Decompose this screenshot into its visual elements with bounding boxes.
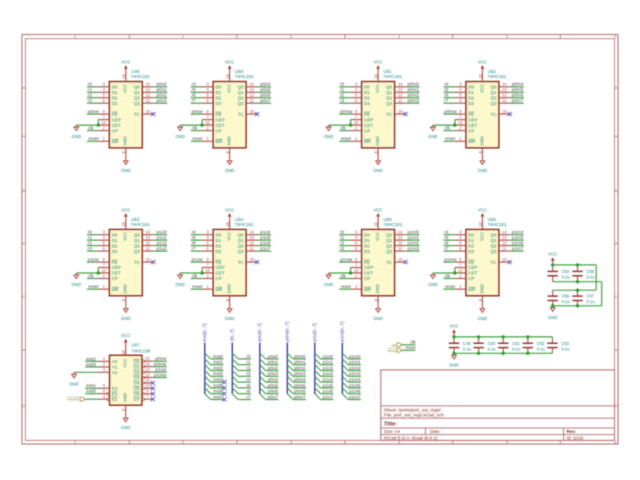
svg-text:r0: r0	[88, 82, 93, 87]
svg-text:VCC: VCC	[449, 324, 458, 329]
svg-text:74HC161: 74HC161	[383, 74, 403, 79]
svg-text:GND: GND	[373, 168, 383, 173]
svg-text:inst1: inst1	[213, 360, 223, 365]
svg-text:clk: clk	[340, 273, 346, 278]
svg-text:D: D	[615, 404, 618, 408]
svg-text:p0o1: p0o1	[156, 87, 167, 92]
pin MR (1) of U54 with wire+label reset	[191, 284, 213, 289]
capacitor C52 0.1u	[523, 337, 545, 353]
svg-text:GND: GND	[227, 284, 232, 294]
svg-text:p1m5: p1m5	[349, 383, 361, 388]
svg-text:r5: r5	[246, 383, 251, 388]
bus entry + wire r1	[232, 359, 251, 365]
svg-text:p0m2: p0m2	[294, 365, 306, 370]
reference U53 value 74HC161	[131, 217, 151, 227]
svg-text:16: 16	[121, 73, 126, 78]
svg-text:Q0: Q0	[490, 85, 497, 90]
svg-text:p0o2: p0o2	[156, 93, 167, 98]
capacitor C56 0.1u	[548, 290, 570, 306]
svg-text:Q3: Q3	[238, 101, 245, 106]
junction at CET of U51	[349, 123, 352, 126]
svg-text:Q2: Q2	[386, 243, 393, 248]
svg-text:D0: D0	[216, 232, 222, 237]
pin D2 (5) of U50 with wire+label r6	[191, 93, 213, 98]
svg-text:GND: GND	[479, 136, 484, 146]
svg-text:14: 14	[249, 230, 254, 235]
pin Q0 (14) of U51 with wire+label p0m0	[395, 82, 420, 87]
svg-text:MR: MR	[216, 139, 224, 144]
svg-text:p0mw: p0mw	[154, 362, 167, 367]
svg-text:D3: D3	[364, 101, 370, 106]
svg-text:16: 16	[478, 73, 483, 78]
capacitor C50 0.1u	[473, 337, 495, 353]
bus entry + wire p1o6	[315, 388, 334, 394]
pin TC (15) of U53 no-connect	[142, 257, 155, 264]
svg-text:r7: r7	[246, 394, 251, 399]
svg-text:Q3: Q3	[386, 101, 393, 106]
svg-text:A2: A2	[112, 370, 118, 375]
bus entry + wire inst4	[205, 376, 227, 384]
svg-text:p1m6: p1m6	[512, 241, 524, 246]
svg-text:p0o7: p0o7	[260, 98, 271, 103]
svg-text:TC: TC	[134, 260, 141, 265]
pin CP (2) of U54 with wire+label clk	[191, 273, 213, 278]
svg-text:74HC161: 74HC161	[131, 222, 151, 227]
svg-text:74HC161: 74HC161	[235, 222, 255, 227]
svg-text:Q2: Q2	[238, 243, 245, 248]
svg-text:VCC: VCC	[123, 84, 128, 93]
svg-text:Title:: Title:	[384, 421, 397, 427]
junctions on C54-C57 rails	[551, 263, 579, 307]
svg-text:Sheet: /ports/port_out_regs/: Sheet: /ports/port_out_regs/	[384, 407, 442, 412]
svg-text:O7: O7	[133, 397, 140, 402]
svg-text:CEP: CEP	[216, 265, 225, 270]
pin Q0 (14) of U56 with wire+label p1m4	[499, 230, 524, 235]
svg-text:p1o2: p1o2	[156, 241, 167, 246]
svg-text:74HC161: 74HC161	[383, 222, 403, 227]
svg-text:12: 12	[502, 240, 507, 245]
ic U51 74HC161 body	[362, 82, 395, 148]
svg-text:10: 10	[458, 120, 463, 125]
reference U56 value 74HC161	[487, 217, 507, 227]
pin Q0 (14) of U55 with wire+label p1m0	[395, 230, 420, 235]
svg-text:p1m1: p1m1	[349, 360, 361, 365]
svg-text:r4: r4	[246, 377, 251, 382]
svg-text:VCC: VCC	[375, 232, 380, 241]
svg-text:D0: D0	[364, 85, 370, 90]
bus entry + wire p1m7	[342, 394, 361, 400]
svg-text:0.1u: 0.1u	[587, 275, 595, 280]
svg-text:r4: r4	[444, 230, 449, 235]
svg-text:TC: TC	[238, 112, 245, 117]
ic U54 74HC161 body	[213, 229, 246, 295]
pin A1 (2) of U57	[85, 362, 109, 367]
svg-text:reset: reset	[341, 284, 352, 289]
svg-text:p0o3: p0o3	[156, 98, 167, 103]
wire CEP-CET tie of U49	[76, 120, 98, 126]
svg-text:D1: D1	[468, 238, 474, 243]
svg-text:C51: C51	[512, 341, 520, 346]
power GND pin 8 of U53	[121, 296, 131, 321]
svg-text:p0o0: p0o0	[268, 354, 279, 359]
pin D2 (5) of U53 with wire+label r2	[87, 240, 109, 245]
bus p1m[0..7]	[339, 322, 344, 394]
power GND pin 8 of U57	[121, 405, 131, 430]
svg-text:clk: clk	[410, 340, 416, 345]
svg-text:VCC: VCC	[478, 60, 487, 65]
pin D3 (6) of U55 with wire+label r3	[339, 246, 361, 251]
svg-text:11: 11	[502, 98, 507, 103]
pin Q0 (14) of U54 with wire+label p1o4	[246, 230, 271, 235]
junction at CET of U50	[200, 123, 203, 126]
wire CEP-CET tie of U50	[180, 120, 202, 126]
bus entry + wire p1o1	[315, 359, 334, 365]
wire CEP-CET tie of U52	[433, 120, 455, 126]
svg-text:inst0: inst0	[86, 389, 96, 394]
ground symbol left of U52	[428, 125, 438, 139]
svg-text:p0o1: p0o1	[268, 360, 279, 365]
svg-text:VCC: VCC	[374, 60, 383, 65]
svg-text:p1m7: p1m7	[349, 394, 361, 399]
svg-text:Rev:: Rev:	[567, 429, 577, 434]
svg-text:11: 11	[146, 98, 151, 103]
pin CP (2) of U56 with wire+label clk	[444, 273, 466, 278]
svg-text:PE: PE	[468, 112, 474, 117]
svg-text:14: 14	[146, 82, 151, 87]
power GND pin 8 of U52	[478, 148, 488, 173]
svg-text:p0m[0..7]: p0m[0..7]	[284, 322, 289, 342]
svg-text:Q1: Q1	[134, 238, 141, 243]
pin D2 (5) of U52 with wire+label r6	[444, 93, 466, 98]
svg-text:D3: D3	[468, 249, 474, 254]
reference U50 value 74HC161	[235, 69, 255, 79]
pin E1 (4) of U57	[99, 394, 110, 400]
svg-text:p0m3: p0m3	[408, 98, 420, 103]
svg-text:r2: r2	[340, 93, 345, 98]
svg-text:CET: CET	[468, 123, 477, 128]
wire clk with label	[402, 340, 417, 345]
svg-text:p1ow: p1ow	[155, 367, 167, 372]
bus entry + wire inst3	[205, 371, 224, 377]
bus entry + wire r6	[232, 388, 251, 394]
svg-text:r4: r4	[192, 82, 197, 87]
bus entry + wire p0o6	[260, 388, 279, 394]
svg-text:GND: GND	[478, 316, 488, 321]
svg-text:r5: r5	[444, 235, 449, 240]
pin CEP (7) of U55	[351, 262, 362, 267]
power VCC pin 16 of U54	[225, 207, 234, 229]
svg-text:1: 1	[74, 35, 76, 39]
pin CP (2) of U55 with wire+label clk	[339, 273, 361, 278]
svg-text:13: 13	[146, 235, 151, 240]
pin D1 (4) of U49 with wire+label r1	[87, 87, 109, 92]
svg-text:D2: D2	[216, 243, 222, 248]
svg-text:p1o0: p1o0	[323, 354, 334, 359]
svg-text:12: 12	[249, 93, 254, 98]
pin Q2 (12) of U52 with wire+label p0m6	[499, 93, 524, 98]
bus entry + wire p1m5	[342, 382, 361, 388]
svg-text:U57: U57	[131, 343, 140, 348]
svg-text:GND: GND	[69, 381, 79, 386]
svg-text:p1m0: p1m0	[349, 354, 361, 359]
svg-text:CP: CP	[216, 128, 222, 133]
svg-text:r6: r6	[192, 241, 197, 246]
bus p0m[0..7]	[284, 322, 289, 394]
svg-text:r2: r2	[88, 93, 93, 98]
pin D2 (5) of U49 with wire+label r2	[87, 93, 109, 98]
bus entry + wire p0m6	[287, 388, 306, 394]
pin CET (10) of U49	[98, 120, 109, 125]
svg-text:13: 13	[146, 87, 151, 92]
svg-text:GND: GND	[324, 134, 334, 139]
junction at CET of U53	[97, 271, 100, 274]
svg-text:r6: r6	[246, 389, 251, 394]
svg-text:Id: 11/16: Id: 11/16	[567, 436, 584, 441]
svg-text:p1m5: p1m5	[512, 235, 524, 240]
pin Q1 (13) of U56 with wire+label p1m5	[499, 235, 524, 240]
svg-text:VCC: VCC	[374, 207, 383, 212]
svg-text:D0: D0	[468, 232, 474, 237]
svg-text:p0o6: p0o6	[268, 389, 279, 394]
svg-text:CEP: CEP	[112, 265, 121, 270]
pin Q1 (13) of U49 with wire+label p0o1	[142, 87, 167, 92]
svg-text:Q3: Q3	[490, 101, 497, 106]
svg-text:r3: r3	[340, 98, 345, 103]
svg-text:Q0: Q0	[238, 85, 245, 90]
pin E3 (6) of U57	[85, 383, 109, 388]
svg-text:Q1: Q1	[238, 90, 245, 95]
svg-text:clk: clk	[88, 126, 94, 131]
capacitor C49 0.1u	[449, 337, 471, 353]
pin Q2 (12) of U50 with wire+label p0o6	[246, 93, 271, 98]
svg-text:CET: CET	[216, 123, 225, 128]
svg-text:Q0: Q0	[490, 232, 497, 237]
bus entry + wire p1o5	[315, 382, 334, 388]
svg-text:p0o5: p0o5	[260, 87, 271, 92]
svg-text:13: 13	[249, 235, 254, 240]
pin Q2 (12) of U54 with wire+label p1o6	[246, 240, 271, 245]
svg-text:p1ow: p1ow	[192, 257, 204, 262]
svg-text:clk: clk	[88, 273, 94, 278]
svg-text:D1: D1	[112, 238, 118, 243]
pin Q0 (14) of U50 with wire+label p0o4	[246, 82, 271, 87]
svg-text:r1: r1	[246, 360, 251, 365]
pin E2 (5) of U57	[85, 389, 109, 395]
svg-text:reset: reset	[341, 136, 352, 141]
svg-text:CP: CP	[112, 128, 118, 133]
svg-text:6: 6	[614, 35, 616, 39]
power GND pin 8 of U49	[121, 148, 131, 173]
svg-text:12: 12	[249, 240, 254, 245]
svg-text:D0: D0	[468, 85, 474, 90]
svg-text:Q2: Q2	[238, 95, 245, 100]
svg-text:GND: GND	[175, 282, 185, 287]
hierarchical label miscIO on pin E1	[67, 397, 99, 402]
svg-text:0.1u: 0.1u	[562, 275, 570, 280]
power VCC above C54	[548, 252, 557, 265]
svg-text:4: 4	[398, 441, 400, 445]
svg-text:p0ow: p0ow	[155, 356, 167, 361]
svg-text:16: 16	[478, 221, 483, 226]
svg-text:10: 10	[354, 120, 359, 125]
svg-text:Q1: Q1	[386, 238, 393, 243]
svg-text:GND: GND	[121, 316, 131, 321]
svg-text:VCC: VCC	[478, 207, 487, 212]
svg-text:15: 15	[145, 356, 150, 361]
svg-text:GND: GND	[548, 315, 558, 320]
svg-text:p0o[0..7]: p0o[0..7]	[257, 323, 262, 341]
svg-text:p1o7: p1o7	[323, 394, 334, 399]
svg-text:Q0: Q0	[386, 85, 393, 90]
GND rail C54-C57	[553, 282, 602, 306]
pin O7 (7) of U57	[142, 394, 155, 401]
svg-text:VCC: VCC	[123, 358, 128, 367]
svg-text:reset: reset	[387, 348, 397, 353]
bus entry + wire p1m0	[342, 353, 361, 359]
power GND below C56	[548, 306, 558, 320]
svg-text:14: 14	[146, 230, 151, 235]
svg-text:D3: D3	[364, 249, 370, 254]
pin CET (10) of U54	[202, 268, 213, 273]
svg-text:D2: D2	[468, 243, 474, 248]
bus entry + wire p1m1	[342, 359, 361, 365]
pin A2 (3) of U57	[99, 367, 110, 372]
pin MR (1) of U56 with wire+label reset	[444, 284, 466, 289]
pin CP (2) of U53 with wire+label clk	[87, 273, 109, 278]
bus entry + wire p1o0	[315, 353, 334, 359]
svg-text:14: 14	[502, 230, 507, 235]
svg-text:r7: r7	[192, 98, 197, 103]
pin Q1 (13) of U53 with wire+label p1o1	[142, 235, 167, 240]
bus entry + wire p1m2	[342, 365, 361, 371]
bus entry + wire p0o5	[260, 382, 279, 388]
reference U51 value 74HC161	[383, 69, 403, 79]
junction at CET of U55	[349, 271, 352, 274]
svg-text:r1: r1	[340, 235, 345, 240]
svg-text:GND: GND	[121, 168, 131, 173]
ground symbol left of U50	[175, 125, 185, 139]
bus entry + wire p0o0	[260, 353, 279, 359]
capacitor C53 0.1u	[547, 337, 569, 353]
svg-text:10: 10	[205, 120, 210, 125]
svg-text:10: 10	[354, 268, 359, 273]
svg-text:C53: C53	[561, 341, 569, 346]
svg-text:GND: GND	[375, 284, 380, 294]
svg-text:CET: CET	[112, 271, 121, 276]
svg-text:O1: O1	[133, 364, 140, 369]
svg-text:clk: clk	[445, 126, 451, 131]
svg-text:16: 16	[225, 221, 230, 226]
svg-text:Q3: Q3	[238, 249, 245, 254]
svg-text:14: 14	[398, 230, 403, 235]
svg-text:0.1u: 0.1u	[463, 346, 471, 351]
pin MR (1) of U53 with wire+label reset	[87, 284, 109, 289]
svg-text:r5: r5	[192, 235, 197, 240]
pin CEP (7) of U52	[455, 114, 466, 119]
svg-text:p1o1: p1o1	[156, 235, 167, 240]
svg-text:CP: CP	[468, 276, 474, 281]
pin D2 (5) of U55 with wire+label r2	[339, 240, 361, 245]
svg-text:D0: D0	[112, 232, 118, 237]
pin D1 (4) of U50 with wire+label r5	[191, 87, 213, 92]
svg-text:D2: D2	[364, 243, 370, 248]
svg-text:C57: C57	[587, 294, 595, 299]
pin Q1 (13) of U51 with wire+label p0m1	[395, 87, 420, 92]
svg-text:E1: E1	[112, 397, 118, 402]
pin CET (10) of U51	[351, 120, 362, 125]
pin O5 (10) of U57	[142, 383, 155, 390]
svg-text:O6: O6	[133, 392, 140, 397]
wire CEP-CET tie of U54	[180, 268, 202, 274]
svg-text:VCC: VCC	[227, 232, 232, 241]
svg-text:12: 12	[145, 372, 150, 377]
bus entry + wire inst2	[205, 365, 224, 371]
svg-text:inst1: inst1	[86, 383, 96, 388]
svg-text:r0: r0	[246, 354, 251, 359]
svg-text:PE: PE	[112, 260, 118, 265]
svg-text:1: 1	[74, 441, 76, 445]
svg-text:E3: E3	[112, 386, 118, 391]
pin D2 (5) of U51 with wire+label r2	[339, 93, 361, 98]
svg-text:p0m5: p0m5	[512, 87, 524, 92]
svg-text:0.1u: 0.1u	[488, 346, 496, 351]
pin D3 (6) of U54 with wire+label r7	[191, 246, 213, 251]
svg-text:11: 11	[146, 246, 151, 251]
svg-text:GND: GND	[479, 284, 484, 294]
svg-text:O0: O0	[133, 359, 140, 364]
pin Q3 (11) of U50 with wire+label p0o7	[246, 98, 271, 103]
svg-text:D1: D1	[364, 238, 370, 243]
svg-text:inst3: inst3	[213, 371, 223, 376]
pin Q3 (11) of U52 with wire+label p0m7	[499, 98, 524, 103]
pin CP (2) of U52 with wire+label clk	[444, 125, 466, 130]
svg-text:A0: A0	[112, 359, 118, 364]
svg-text:p0m5: p0m5	[294, 383, 306, 388]
svg-text:D2: D2	[468, 95, 474, 100]
pin PE (9) of U53 with wire+label p1ow	[87, 257, 109, 262]
bus p1o[0..7]	[312, 323, 317, 394]
svg-text:Q1: Q1	[386, 90, 393, 95]
svg-text:p1mw: p1mw	[444, 257, 457, 262]
svg-text:r0: r0	[88, 230, 93, 235]
bus entry + wire p0m1	[287, 359, 306, 365]
svg-text:13: 13	[398, 87, 403, 92]
svg-text:GND: GND	[373, 316, 383, 321]
pin Q3 (11) of U54 with wire+label p1o7	[246, 246, 271, 251]
svg-text:13: 13	[145, 367, 150, 372]
bus entry + wire p1m6	[342, 388, 361, 394]
pin PE (9) of U54 with wire+label p1ow	[191, 257, 213, 262]
bus entry + wire p1o4	[315, 376, 334, 382]
svg-text:CEP: CEP	[364, 265, 373, 270]
svg-text:10: 10	[102, 120, 107, 125]
pin D1 (4) of U55 with wire+label r1	[339, 235, 361, 240]
bus entry + wire p1m4	[342, 376, 361, 382]
svg-text:74HC138: 74HC138	[131, 348, 151, 353]
svg-text:PE: PE	[216, 112, 222, 117]
pin CP (2) of U51 with wire+label clk	[339, 125, 361, 130]
svg-text:GND: GND	[428, 282, 438, 287]
svg-text:p0m6: p0m6	[294, 389, 306, 394]
svg-text:Q2: Q2	[490, 243, 497, 248]
bus entry + wire p0o4	[260, 376, 279, 382]
svg-text:VCC: VCC	[121, 60, 130, 65]
svg-text:inst3: inst3	[86, 362, 96, 367]
pin PE (9) of U55 with wire+label p1mw	[339, 257, 361, 262]
ground symbol at A2 of U57	[69, 372, 79, 386]
pin D0 (3) of U52 with wire+label r4	[444, 82, 466, 87]
wire CEP-CET tie of U55	[329, 268, 351, 274]
